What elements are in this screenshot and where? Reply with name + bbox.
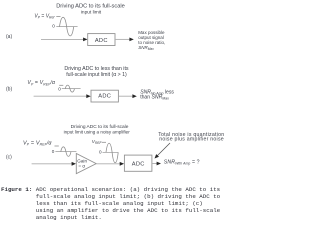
amplified sine row c (106, 143, 118, 163)
output wire row b (118, 95, 133, 97)
ADC box row c (124, 155, 151, 171)
header row b (64, 66, 129, 78)
source sine row b (65, 85, 74, 92)
source sine row c input (61, 147, 71, 157)
svg-text:= α: = α (78, 163, 85, 168)
pointer line total noise row c (157, 143, 170, 156)
svg-text:(c): (c) (6, 154, 12, 160)
svg-text:input limit: input limit (81, 9, 102, 15)
output wire row c (152, 163, 158, 165)
svg-text:ADC: ADC (98, 94, 111, 100)
vref level dash row a (56, 15, 60, 17)
level dash row b (59, 84, 63, 86)
figure caption (1, 186, 220, 221)
ADC box row b (91, 90, 118, 102)
wire into ADC row b (34, 95, 88, 97)
zero dash row c input (55, 151, 76, 153)
svg-text:SNRMax: SNRMax (138, 45, 154, 51)
svg-text:(b): (b) (6, 86, 12, 92)
output arrowhead row a (129, 38, 133, 42)
ADC box row a (88, 34, 115, 46)
output wire row a (115, 38, 130, 40)
wire into ADC row a (41, 38, 84, 40)
svg-text:VP = VRef: VP = VRef (34, 14, 55, 20)
arrowhead into ADC row b (86, 94, 90, 98)
header row a (56, 3, 125, 15)
wire amp to ADC row c (96, 163, 121, 165)
svg-text:Driving ADC to its full-scale: Driving ADC to its full-scale (56, 3, 125, 9)
svg-text:ADC: ADC (95, 38, 108, 44)
svg-text:SNRWith Amp = ?: SNRWith Amp = ? (164, 160, 200, 166)
svg-text:VREF: VREF (92, 139, 103, 145)
note max possible SNR row a (138, 30, 165, 51)
svg-text:0: 0 (52, 149, 55, 154)
svg-text:input limit using a noisy ampl: input limit using a noisy amplifier (64, 129, 131, 134)
note SNR no amp row b (140, 90, 174, 101)
source sine row a (60, 17, 74, 36)
header row c (64, 124, 131, 134)
svg-text:0: 0 (99, 150, 102, 155)
amplifier triangle U1 (76, 154, 96, 174)
svg-text:noise plus amplifier noise: noise plus amplifier noise (159, 137, 224, 143)
svg-text:ADC: ADC (132, 162, 145, 168)
output arrowhead row c (157, 162, 161, 166)
svg-text:VP = VREF/α: VP = VREF/α (23, 140, 52, 146)
vref level dash row c (102, 141, 106, 143)
svg-text:full-scale input limit (α > 1): full-scale input limit (α > 1) (66, 72, 127, 78)
note total noise row c (158, 132, 224, 143)
pointer arrowhead total noise row c (155, 154, 160, 158)
svg-text:VP = VREF/α: VP = VREF/α (27, 80, 56, 86)
arrowhead into amplifier row c (72, 162, 76, 166)
svg-text:0: 0 (58, 86, 61, 91)
output arrowhead row b (132, 94, 136, 98)
zero dash row a (56, 26, 77, 28)
zero dash row b (62, 88, 81, 90)
level dash row c input (55, 145, 59, 147)
svg-text:0: 0 (52, 24, 55, 29)
zero dash row c output (103, 151, 119, 153)
arrowhead into ADC row a (83, 38, 87, 42)
wire into amplifier row c (32, 163, 73, 165)
arrowhead into ADC row c (120, 162, 124, 166)
svg-text:(a): (a) (6, 34, 12, 40)
